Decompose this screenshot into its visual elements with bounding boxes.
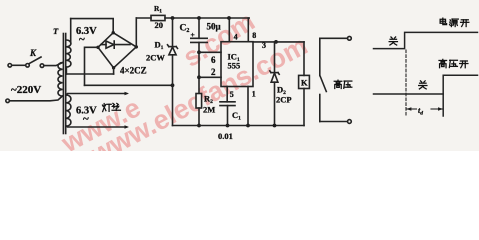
svg-text:4×2CZ: 4×2CZ [120, 66, 147, 76]
svg-text:5: 5 [230, 90, 234, 99]
svg-text:C2: C2 [180, 24, 190, 35]
svg-text:2M: 2M [203, 105, 215, 115]
svg-text:~: ~ [79, 34, 85, 46]
svg-text:4: 4 [234, 33, 238, 42]
svg-text:C1: C1 [232, 110, 241, 122]
svg-text:6: 6 [211, 55, 216, 65]
svg-text:T: T [53, 26, 59, 36]
svg-text:+: + [191, 30, 195, 39]
svg-text:555: 555 [228, 61, 241, 71]
svg-text:3: 3 [262, 41, 266, 50]
svg-text:~220V: ~220V [11, 84, 41, 96]
svg-text:50μ: 50μ [207, 22, 221, 32]
svg-text:td: td [418, 106, 423, 117]
svg-text:1: 1 [252, 90, 256, 99]
svg-text:R2: R2 [204, 94, 213, 106]
svg-text:8: 8 [252, 31, 256, 40]
svg-text:D1: D1 [155, 40, 164, 52]
svg-text:K: K [301, 78, 308, 88]
svg-text:0.01: 0.01 [218, 131, 233, 141]
svg-text:~: ~ [83, 113, 89, 125]
svg-text:R1: R1 [154, 4, 162, 15]
svg-text:K: K [29, 48, 37, 58]
svg-text:20: 20 [155, 20, 164, 30]
svg-text:2CW: 2CW [146, 53, 165, 63]
svg-text:2: 2 [211, 67, 216, 77]
svg-text:2CP: 2CP [276, 95, 292, 105]
